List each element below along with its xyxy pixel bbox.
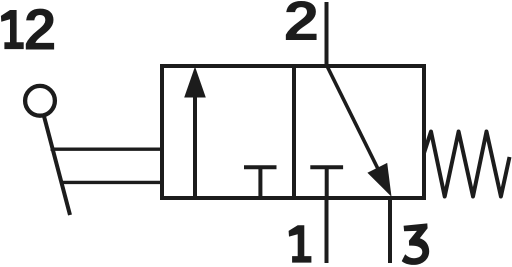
svg-text:2: 2	[284, 0, 320, 52]
svg-text:2: 2	[24, 0, 57, 62]
